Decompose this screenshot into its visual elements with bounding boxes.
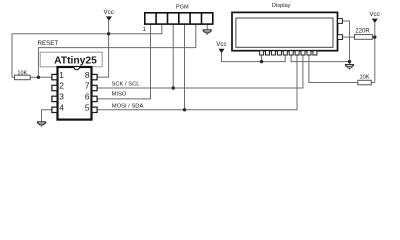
svg-text:5: 5 xyxy=(85,103,90,113)
svg-text:MOSI / SDA: MOSI / SDA xyxy=(112,104,144,110)
svg-text:1: 1 xyxy=(143,27,147,33)
svg-text:PGM: PGM xyxy=(176,4,189,10)
svg-text:MISO: MISO xyxy=(112,92,127,98)
svg-text:3: 3 xyxy=(59,92,64,102)
svg-text:2: 2 xyxy=(59,81,64,91)
svg-text:Vcc: Vcc xyxy=(369,11,379,18)
svg-text:Display: Display xyxy=(272,3,291,9)
svg-text:ATtiny25: ATtiny25 xyxy=(54,55,97,66)
svg-text:SCK / SCL: SCK / SCL xyxy=(112,82,141,88)
svg-text:4: 4 xyxy=(59,103,64,113)
svg-text:6: 6 xyxy=(85,92,90,102)
svg-text:220R: 220R xyxy=(355,28,370,35)
svg-text:1: 1 xyxy=(59,70,64,80)
svg-text:8: 8 xyxy=(85,70,90,80)
svg-text:10K: 10K xyxy=(360,75,370,81)
svg-text:Vcc: Vcc xyxy=(104,9,114,16)
svg-text:Vcc: Vcc xyxy=(216,41,226,48)
svg-text:7: 7 xyxy=(85,81,90,91)
svg-text:10K: 10K xyxy=(17,70,27,76)
svg-text:RESET: RESET xyxy=(38,40,59,47)
